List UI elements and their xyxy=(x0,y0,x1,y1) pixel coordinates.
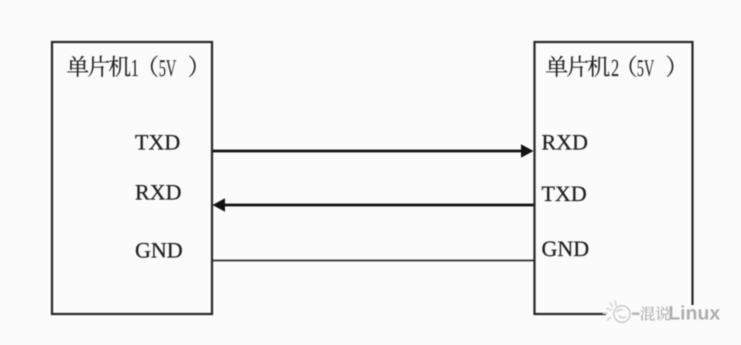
pin label U1 TXD xyxy=(135,135,179,149)
pin label U2 GND xyxy=(542,241,588,256)
MCU box U2 (right microcontroller 单片机 2) xyxy=(535,42,693,314)
label U1 title 单片机 1（5V） xyxy=(67,56,131,77)
pin label U1 RXD xyxy=(136,185,181,199)
watermark text 混说Linux xyxy=(640,306,670,320)
pin label U1 GND xyxy=(136,243,182,258)
MCU box U1 (left microcontroller 单片机 1) xyxy=(52,42,212,314)
wire U1.GND to U2.GND (common ground) xyxy=(213,260,534,262)
watermark background overlay xyxy=(606,305,741,330)
watermark logo icon xyxy=(604,301,631,322)
watermark dash xyxy=(632,312,640,315)
pin label U2 RXD xyxy=(542,135,587,149)
label U2 title 单片机 2（5V） xyxy=(546,56,610,77)
pin label U2 TXD xyxy=(542,187,586,201)
wire U2.TXD to U1.RXD (serial line 2) xyxy=(213,198,534,212)
wire U1.TXD to U2.RXD (serial line 1) xyxy=(213,144,534,158)
